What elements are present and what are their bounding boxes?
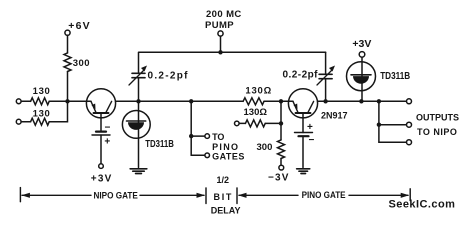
terminal R5 input xyxy=(235,121,240,126)
wire pino stub lower xyxy=(191,154,205,156)
wire B2 to ground xyxy=(302,136,304,167)
terminal +3V left xyxy=(99,164,104,169)
wire output stub top xyxy=(379,100,407,102)
svg-text:1/2: 1/2 xyxy=(217,175,230,185)
capacitor C1 0.2-2pf variable xyxy=(129,66,147,86)
wire output stub bottom xyxy=(379,141,407,143)
wire output stub mid xyxy=(379,124,407,126)
terminal 200 MC PUMP xyxy=(218,31,223,36)
wire varactor2 to bus xyxy=(325,79,327,102)
resistor R3 130 lower xyxy=(31,118,50,125)
svg-text:BIT: BIT xyxy=(214,192,234,202)
node varactor2 junction xyxy=(323,99,327,103)
node varactor bus junction xyxy=(136,99,140,103)
svg-text:TO NIPO: TO NIPO xyxy=(417,127,457,137)
bar right end xyxy=(409,189,411,201)
transistor Q2 2N917 xyxy=(288,89,317,118)
svg-text:TO: TO xyxy=(212,132,224,142)
wire R2 to junction xyxy=(49,100,67,102)
bar bit right xyxy=(236,188,238,204)
wire pino branch vertical xyxy=(190,101,192,155)
ground below B2 xyxy=(297,169,310,174)
node Q2 base junction xyxy=(279,99,283,103)
diode D1 TD311B xyxy=(122,101,150,167)
wire varactor2 branch xyxy=(325,52,327,74)
wire nipo dim left xyxy=(22,194,91,196)
wire terminal to R5 xyxy=(239,122,245,124)
wire base junction to Q2 xyxy=(281,100,293,102)
node R5 junction xyxy=(279,121,283,125)
svg-text:130Ω: 130Ω xyxy=(245,86,272,97)
terminal input lower left xyxy=(16,119,21,124)
svg-text:−: − xyxy=(105,122,111,133)
svg-text:−: − xyxy=(309,135,315,146)
node outputs bus junction xyxy=(377,99,381,103)
wire nipo dim right xyxy=(140,194,204,196)
node output mid junction xyxy=(377,123,381,127)
dimension nipo gate xyxy=(20,175,410,216)
svg-text:130: 130 xyxy=(33,109,51,120)
node pino bus junction xyxy=(189,99,193,103)
ground below D1 xyxy=(130,169,147,174)
svg-text:300: 300 xyxy=(257,142,273,153)
wire terminal to R3 xyxy=(21,121,30,123)
node pino mid junction xyxy=(189,134,193,138)
svg-text:+: + xyxy=(104,137,110,148)
svg-text:+6V: +6V xyxy=(68,20,91,32)
arrow right end xyxy=(401,193,410,198)
resistor R4 130 upper xyxy=(243,98,264,105)
wire pump terminal drop xyxy=(220,37,222,53)
arrow left into bit bar right xyxy=(238,193,247,198)
terminal output top xyxy=(407,99,412,104)
terminal pino lower xyxy=(205,153,210,158)
svg-text:PINO GATE: PINO GATE xyxy=(302,190,346,201)
wire varactor to bus xyxy=(138,78,140,102)
svg-text:GATES: GATES xyxy=(212,151,245,161)
transistor Q1 xyxy=(86,89,115,118)
svg-text:0.2-2pf: 0.2-2pf xyxy=(283,70,319,81)
battery B1 xyxy=(92,132,110,135)
terminal output mid xyxy=(407,122,412,127)
terminal +6V xyxy=(65,30,70,35)
wire Q2 collector to bus xyxy=(318,100,326,102)
wire outputs vertical xyxy=(378,101,380,142)
wire base junction to Q1 xyxy=(68,100,92,102)
svg-text:0.2-2pf: 0.2-2pf xyxy=(148,70,189,81)
svg-text:TD311B: TD311B xyxy=(380,71,410,82)
svg-text:SeekIC.com: SeekIC.com xyxy=(389,199,456,211)
arrow left xyxy=(21,193,30,198)
svg-text:+3V: +3V xyxy=(91,174,113,185)
svg-text:+3V: +3V xyxy=(352,38,371,50)
svg-text:OUTPUTS: OUTPUTS xyxy=(416,113,459,123)
wire Q2 emitter to battery B2 xyxy=(302,118,304,133)
wire bus Q2 to outputs xyxy=(326,100,379,102)
wire varactor branch upper xyxy=(138,52,140,73)
terminal output bottom xyxy=(407,140,412,145)
wire pump bus horizontal xyxy=(139,51,326,53)
terminal -3V xyxy=(279,165,284,170)
wire riser base to R6 xyxy=(280,101,282,140)
diode D2 TD311B xyxy=(347,57,376,101)
svg-text:130: 130 xyxy=(33,86,51,97)
resistor R5 130 lower xyxy=(245,120,265,127)
node base junction xyxy=(65,99,69,103)
terminal input upper left xyxy=(16,99,21,104)
resistor R1 300 vertical xyxy=(64,53,71,72)
terminal pino upper xyxy=(205,134,210,139)
arrow right into bit bar xyxy=(197,193,206,198)
wire R4 to base junction xyxy=(264,100,281,102)
svg-text:2N917: 2N917 xyxy=(321,111,348,121)
wire R1 to base junction xyxy=(67,72,69,102)
svg-text:130Ω: 130Ω xyxy=(244,107,268,118)
svg-text:TD311B: TD311B xyxy=(145,139,174,150)
wire Q1 emitter to battery B1 xyxy=(100,118,102,132)
wire pino stub upper xyxy=(191,135,205,137)
wire Q1 collector to bus xyxy=(116,100,139,102)
resistor R6 300 vertical xyxy=(278,140,285,159)
bar bit left xyxy=(205,188,207,204)
battery B2 xyxy=(295,133,313,137)
wire R3 to junction riser xyxy=(49,101,67,121)
svg-text:NIPO GATE: NIPO GATE xyxy=(94,191,138,202)
svg-text:300: 300 xyxy=(73,58,90,69)
bar left xyxy=(19,188,21,202)
wire pino dim left xyxy=(239,194,298,196)
svg-text:200 MC: 200 MC xyxy=(206,9,242,20)
wire bus Q1 to pino junction xyxy=(139,100,192,102)
capacitor C2 0.2-2pf variable xyxy=(317,66,335,86)
node D2 bus junction xyxy=(359,99,363,103)
wire R5 to riser xyxy=(265,122,281,124)
svg-text:PUMP: PUMP xyxy=(205,20,234,31)
terminal +3V right xyxy=(359,52,365,58)
resistor R2 130 upper xyxy=(31,98,50,105)
svg-text:−3V: −3V xyxy=(268,173,290,184)
wire pino dim right xyxy=(349,194,408,196)
wire terminal to R2 xyxy=(21,100,30,102)
wire +6V to R1 xyxy=(67,36,69,53)
wire B1 to +3V terminal xyxy=(100,135,102,164)
node pump junction xyxy=(218,50,222,54)
wire R6 to -3V terminal xyxy=(280,159,282,166)
wire pino junction to R4 xyxy=(191,100,243,102)
svg-text:DELAY: DELAY xyxy=(211,206,241,215)
svg-text:PINO: PINO xyxy=(212,142,239,152)
svg-text:+: + xyxy=(307,122,313,133)
